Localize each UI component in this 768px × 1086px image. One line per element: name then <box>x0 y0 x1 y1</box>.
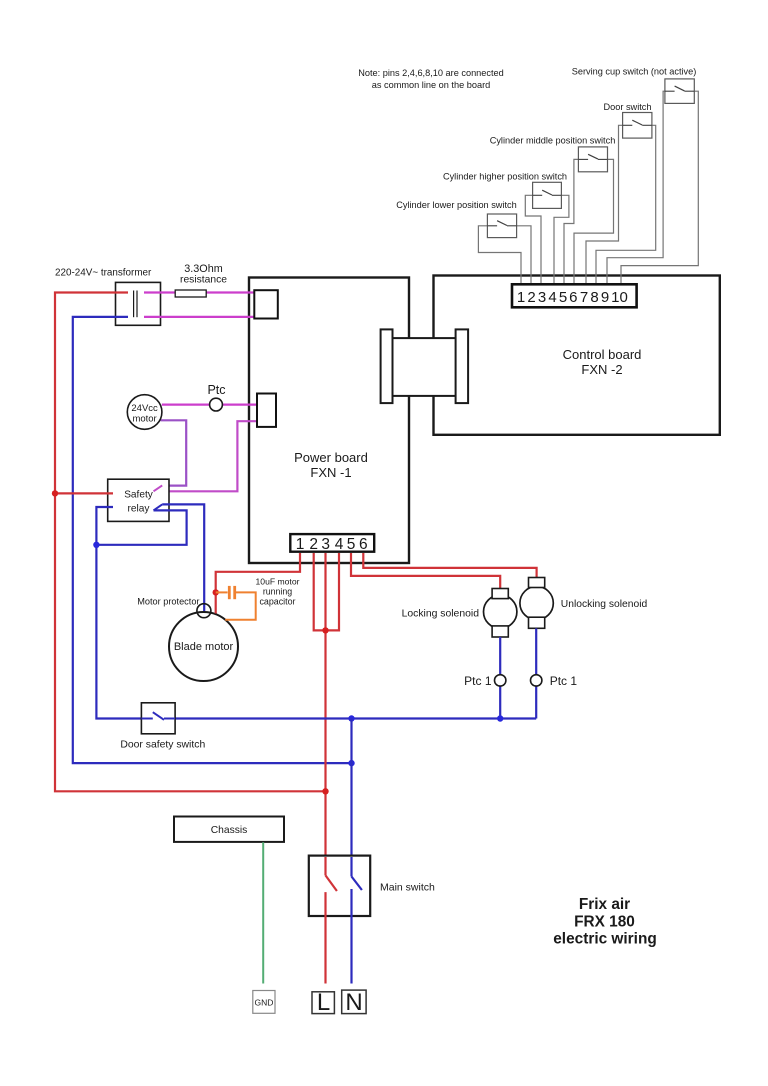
svg-text:220-24V~ transformer: 220-24V~ transformer <box>55 268 152 279</box>
svg-text:6: 6 <box>359 536 368 553</box>
svg-text:8: 8 <box>590 289 598 306</box>
wire cylinder lower switch right to pin 2 <box>517 226 531 284</box>
svg-text:Ptc: Ptc <box>207 383 225 397</box>
junction dot blue main switch rail <box>348 715 354 721</box>
svg-text:Note: pins 2,4,6,8,10 are conn: Note: pins 2,4,6,8,10 are connected <box>358 68 504 78</box>
svg-text:FXN -2: FXN -2 <box>581 362 622 377</box>
note text <box>358 68 504 90</box>
wire door switch right to pin 8 <box>596 125 656 284</box>
wire cylinder middle switch left to pin 5 <box>564 159 578 284</box>
svg-text:7: 7 <box>580 289 588 306</box>
thermistor PTC1b <box>531 675 542 686</box>
solenoid L1 locking <box>484 589 517 638</box>
svg-text:Door switch: Door switch <box>604 102 652 112</box>
wire cylinder lower switch left to pin 1 <box>478 226 521 284</box>
power board U1 FXN-1 <box>249 278 409 564</box>
wire blue: bottom rail door switch to solenoids <box>175 717 536 719</box>
wire blue: main rail up from main switch <box>350 719 352 877</box>
motor protector thermal cutout <box>197 604 211 618</box>
capacitor C1 plates <box>228 586 231 599</box>
svg-text:motor: motor <box>132 414 156 425</box>
wire blue: relay contact stub to junction below <box>96 510 186 544</box>
svg-text:2: 2 <box>309 536 318 553</box>
svg-text:3: 3 <box>321 536 330 553</box>
wire red: pin 2 down <box>314 553 339 630</box>
wire serving cup switch right to pin 10 <box>621 91 698 284</box>
board-to-board connector J3 <box>381 329 469 403</box>
wire magenta: motor M1 to Ptc to connector J1b <box>162 404 257 406</box>
wire blue: unlocking solenoid to bottom rail through Ptc 1 <box>535 628 537 674</box>
label resistor R1 value <box>180 263 227 286</box>
connector J1a on power board <box>254 290 277 318</box>
junction dot red pins 2-4 rail <box>322 627 328 633</box>
connector J2 pins 1-10 on control board <box>512 284 637 307</box>
wire cylinder middle switch right to pin 6 <box>574 159 614 284</box>
junction dot red left rail join <box>322 788 328 794</box>
wire door switch left to pin 7 <box>586 125 623 284</box>
switch S7 main switch <box>309 856 370 916</box>
thermistor PTC1a <box>495 675 506 686</box>
svg-text:FXN -1: FXN -1 <box>310 465 351 480</box>
capacitor C1 10uF leads (orange) <box>216 591 228 593</box>
svg-text:FRX 180: FRX 180 <box>574 914 635 931</box>
svg-text:GND: GND <box>255 998 274 1008</box>
svg-text:running: running <box>263 587 292 597</box>
svg-text:2: 2 <box>527 289 535 306</box>
terminal L live <box>312 989 334 1016</box>
svg-text:6: 6 <box>569 289 577 306</box>
svg-text:10: 10 <box>611 289 628 306</box>
relay contact blade upper (magenta) <box>154 485 163 491</box>
svg-text:Locking solenoid: Locking solenoid <box>402 609 480 620</box>
wire red: mains L to transformer primary, left rail down <box>55 293 326 792</box>
wire magenta: transformer secondary top through R1 to connector pin <box>144 291 254 293</box>
main switch blue pole <box>350 857 352 877</box>
wire green: chassis to GND <box>262 842 264 983</box>
svg-text:electric wiring: electric wiring <box>553 931 657 948</box>
svg-text:5: 5 <box>347 536 356 553</box>
svg-text:Cylinder middle position switc: Cylinder middle position switch <box>490 136 616 146</box>
wire blue: relay contact to motor protector <box>162 504 204 614</box>
chassis plate <box>174 817 284 842</box>
wire red: pin 3 main rail down to main switch <box>324 553 326 875</box>
svg-text:Ptc 1: Ptc 1 <box>464 674 492 688</box>
solenoid L2 unlocking <box>520 578 553 629</box>
svg-text:Door safety switch: Door safety switch <box>120 740 205 751</box>
svg-text:9: 9 <box>601 289 609 306</box>
wire blue: relay coil left side to junction <box>96 507 141 719</box>
wire blue: locking solenoid to bottom rail through Ptc 1 <box>499 637 501 675</box>
title Frix air FRX 180 electric wiring <box>553 896 657 948</box>
resistor R1 3.3Ohm <box>175 290 206 297</box>
svg-text:L: L <box>317 989 330 1016</box>
svg-text:3.3Ohm: 3.3Ohm <box>184 263 222 275</box>
relay contact blade lower (blue) <box>154 504 163 510</box>
svg-text:Power board: Power board <box>294 450 368 465</box>
svg-text:Frix air: Frix air <box>579 896 630 913</box>
label capacitor C1 value <box>256 577 300 607</box>
svg-text:Safety: Safety <box>124 490 154 501</box>
svg-text:Ptc 1: Ptc 1 <box>550 674 578 688</box>
switch S1 cylinder lower position switch <box>487 214 516 238</box>
junction dot red rail / relay <box>52 490 58 496</box>
svg-text:Control board: Control board <box>563 347 642 362</box>
wire magenta: transformer secondary bottom to connector pin <box>144 316 254 318</box>
motor M2 24Vcc motor <box>127 395 162 430</box>
svg-text:capacitor: capacitor <box>259 597 295 607</box>
svg-text:1: 1 <box>517 289 525 306</box>
switch S3 cylinder middle position switch <box>578 147 607 172</box>
relay K1 safety relay <box>108 479 169 521</box>
connector J1b on power board <box>257 394 276 427</box>
svg-text:Cylinder lower position switch: Cylinder lower position switch <box>396 200 517 210</box>
wire cylinder higher switch left to pin 3 <box>525 195 541 284</box>
wire red: pin 5 to locking solenoid <box>351 553 500 589</box>
svg-text:Unlocking solenoid: Unlocking solenoid <box>561 599 648 610</box>
svg-text:10uF motor: 10uF motor <box>256 577 300 587</box>
wire red: left rail branch into safety relay <box>55 492 113 494</box>
svg-text:5: 5 <box>559 289 567 306</box>
junction dot blue at relay branch <box>93 542 99 548</box>
control board U2 FXN-2 <box>434 276 720 435</box>
thermistor PTC on motor wire <box>210 398 223 411</box>
svg-text:3: 3 <box>538 289 546 306</box>
junction dot blue left rail join <box>348 760 354 766</box>
svg-text:Blade motor: Blade motor <box>174 641 234 653</box>
switch S2 cylinder higher position switch <box>533 182 562 208</box>
svg-text:Main switch: Main switch <box>380 882 435 894</box>
switch S4 door switch <box>623 113 652 139</box>
wire magenta: safety relay contact to connector J1b lower pin <box>154 421 258 491</box>
svg-text:1: 1 <box>296 536 305 553</box>
wire red: pin 1 to motor protector <box>216 553 300 614</box>
svg-text:Chassis: Chassis <box>211 825 248 836</box>
svg-text:relay: relay <box>128 504 151 515</box>
svg-text:resistance: resistance <box>180 275 227 286</box>
main switch red pole <box>324 857 326 875</box>
connector J4 pins 1-6 on power board <box>290 534 374 553</box>
junction dot blue locking solenoid <box>497 715 503 721</box>
switch S6 door safety switch <box>141 703 175 734</box>
blade motor M1 <box>169 612 238 681</box>
ground GND terminal <box>253 991 275 1014</box>
switch S5 serving cup switch (not active) <box>665 79 694 104</box>
terminal N neutral <box>342 989 366 1016</box>
svg-text:Motor protector: Motor protector <box>137 597 199 607</box>
svg-text:Cylinder higher position switc: Cylinder higher position switch <box>443 172 567 182</box>
svg-text:24Vcc: 24Vcc <box>131 403 158 414</box>
svg-text:Serving cup switch (not active: Serving cup switch (not active) <box>572 67 697 77</box>
junction dot red capacitor tap <box>213 589 219 595</box>
svg-text:N: N <box>345 989 362 1016</box>
svg-text:as common line on the board: as common line on the board <box>372 80 491 90</box>
transformer T1 220-24V <box>116 282 161 325</box>
wire purple: motor M1 bottom to safety relay contact <box>161 420 187 485</box>
wire red: pin 6 to unlocking solenoid <box>363 553 536 578</box>
svg-text:4: 4 <box>335 536 344 553</box>
wire cylinder higher switch right to pin 4 <box>554 195 569 284</box>
wire blue: mains N to transformer primary, left rail down <box>73 317 352 763</box>
wire serving cup switch left to pin 9 <box>607 91 665 284</box>
svg-text:4: 4 <box>548 289 556 306</box>
